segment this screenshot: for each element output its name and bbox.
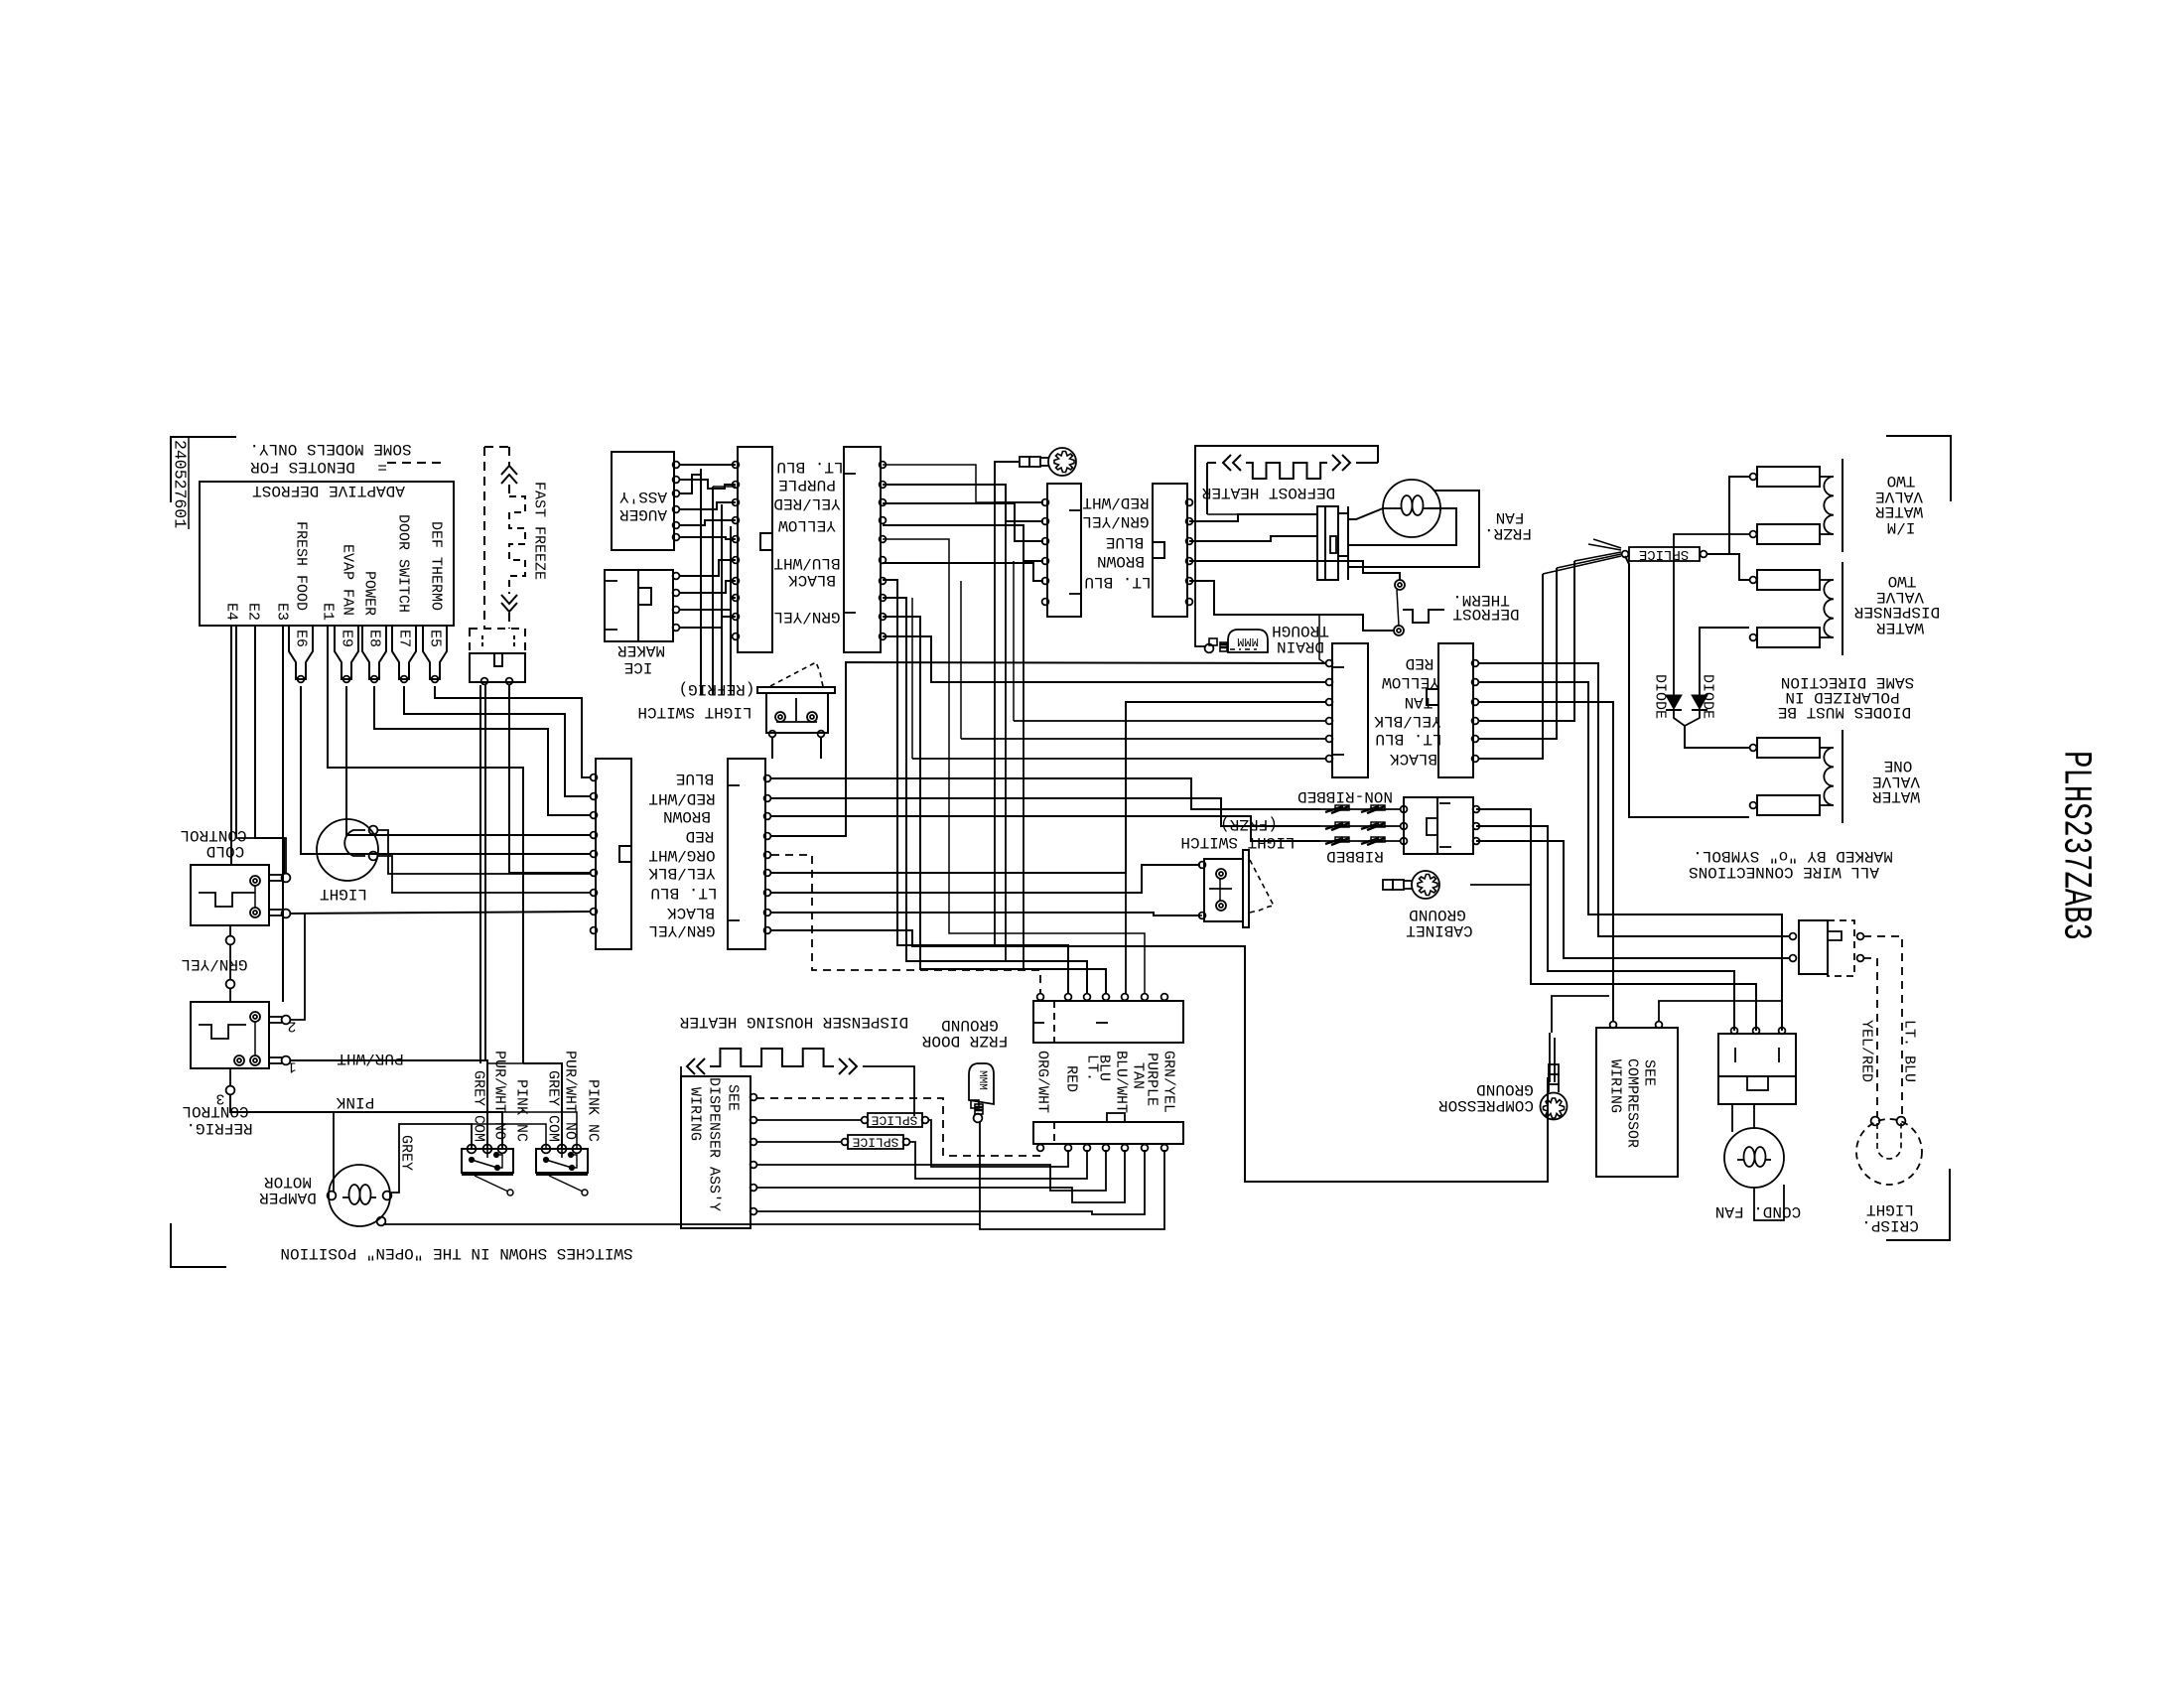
svg-text:(FRZR): (FRZR): [1220, 815, 1278, 833]
refrig control pin 3: [229, 1068, 231, 1086]
svg-text:RED/WHT: RED/WHT: [648, 789, 715, 807]
see dispenser wiring box: [681, 1076, 751, 1228]
trunk: drain pin3 to see compressor: [1478, 702, 1613, 1022]
svg-text:LT. BLU: LT. BLU: [776, 458, 843, 476]
svg-text:PINK NC: PINK NC: [585, 1079, 602, 1142]
spade terminal E5: [423, 626, 447, 679]
defrost thermostat terminal top: [1395, 580, 1405, 590]
svg-text:SPLICE: SPLICE: [1639, 546, 1689, 562]
svg-text:E1: E1: [320, 603, 337, 621]
svg-text:DIODE: DIODE: [1700, 674, 1716, 719]
svg-text:PUR/WHT NO: PUR/WHT NO: [491, 1051, 508, 1140]
adaptive defrost control board: [200, 482, 454, 626]
svg-text:GROUND: GROUND: [941, 1016, 999, 1034]
cold control wire right (grn/yel run): [290, 912, 591, 914]
svg-text:GRN/YEL: GRN/YEL: [773, 608, 840, 626]
pur/wht branch: [487, 1062, 523, 1064]
svg-text:GRN/YEL: GRN/YEL: [1082, 512, 1149, 530]
wire see-box to splice2: [756, 1141, 842, 1143]
wire ice maker to connector: [679, 560, 736, 576]
water valve solenoid: [1757, 738, 1820, 758]
svg-text:BLU/WHT: BLU/WHT: [1113, 1051, 1130, 1113]
wire E5 run: [435, 686, 591, 777]
page corner mark top-left: [171, 437, 236, 502]
svg-text:DOOR SWITCH: DOOR SWITCH: [395, 514, 412, 613]
svg-text:MARKED BY "o" SYMBOL.: MARKED BY "o" SYMBOL.: [1693, 847, 1893, 865]
wire: [679, 581, 736, 593]
wire E8 run: [374, 686, 591, 815]
wire auger to connector: [679, 464, 736, 466]
svg-text:ONE: ONE: [1884, 757, 1913, 774]
wire: [679, 502, 736, 509]
svg-text:E9: E9: [339, 630, 355, 647]
wire E9 run: [346, 686, 591, 835]
trunk: drain pin1 to relay upper: [1478, 663, 1790, 936]
splice 2: [848, 1135, 903, 1149]
svg-text:GREY COM: GREY COM: [471, 1070, 487, 1142]
heater right lead: [863, 1066, 914, 1116]
svg-text:SPLICE: SPLICE: [871, 1113, 917, 1128]
frzr door ground wire: [980, 1122, 1164, 1229]
svg-text:COND. FAN: COND. FAN: [1715, 1202, 1801, 1220]
svg-text:FRZR DOOR: FRZR DOOR: [921, 1032, 1008, 1050]
svg-text:TAN: TAN: [1405, 693, 1433, 711]
lead wires with splices: [1320, 808, 1401, 810]
svg-text:FRESH FOOD: FRESH FOOD: [293, 521, 310, 611]
dispenser connector upper: [1033, 1001, 1183, 1043]
water valve solenoid: [1757, 467, 1820, 487]
svg-text:YEL/RED: YEL/RED: [1858, 1020, 1875, 1082]
svg-text:DISPENSER HOUSING HEATER: DISPENSER HOUSING HEATER: [679, 1013, 908, 1031]
trunk wire: [883, 636, 1325, 682]
trunk: ribbed lead to cond fan 1: [1476, 826, 1734, 1031]
trunk wire: [883, 617, 1106, 994]
refrig control pin 2: [269, 1016, 282, 1018]
trunk: ribbed lead to relay lower: [1476, 841, 1790, 958]
svg-text:SWITCHES SHOWN IN THE "OPEN" P: SWITCHES SHOWN IN THE "OPEN" POSITION: [280, 1244, 632, 1262]
svg-text:TWO: TWO: [1888, 572, 1917, 590]
svg-text:BLACK: BLACK: [667, 904, 715, 921]
splice2 wire east: [910, 1142, 1087, 1179]
damper motor: [329, 1165, 390, 1226]
defrost heater loop: [1195, 446, 1378, 502]
page corner mark top-right: [1886, 436, 1951, 501]
damper door switch: [462, 1149, 513, 1173]
vertical harness wires: [700, 469, 702, 695]
wire RED east: [771, 662, 1325, 836]
damper motor left wire: [333, 1112, 335, 1192]
board E4 wires: [230, 626, 232, 865]
svg-text:LT. BLU: LT. BLU: [1375, 730, 1441, 748]
dispenser connector lower: [1033, 1122, 1183, 1144]
svg-text:MMM: MMM: [976, 1070, 988, 1090]
svg-text:SOME MODELS ONLY.: SOME MODELS ONLY.: [249, 440, 411, 458]
svg-text:ICE: ICE: [624, 658, 653, 676]
svg-text:LT. BLU: LT. BLU: [650, 884, 717, 902]
wire E1 run: [328, 626, 523, 1063]
svg-text:PUR/WHT NO: PUR/WHT NO: [562, 1051, 579, 1140]
ice maker box: [605, 570, 673, 641]
drain trough heater: [1228, 630, 1268, 652]
wire: [679, 520, 736, 525]
ground lug top: [1020, 448, 1076, 476]
splice fan-in wires: [1574, 552, 1621, 561]
cond fan connector box: [1718, 1034, 1796, 1076]
wire valve one return: [1625, 556, 1749, 817]
heater left lead: [680, 1066, 682, 1076]
wire splice to dispenser valve: [1716, 554, 1749, 580]
svg-text:RED/WHT: RED/WHT: [1082, 493, 1149, 511]
svg-text:E4: E4: [223, 603, 240, 621]
svg-text:BROWN: BROWN: [1097, 552, 1145, 570]
svg-text:RED: RED: [1063, 1065, 1080, 1092]
diode 2: [1692, 695, 1707, 709]
svg-text:DIODE: DIODE: [1652, 674, 1669, 719]
svg-text:LT. BLU: LT. BLU: [1901, 1020, 1918, 1082]
svg-text:LIGHT: LIGHT: [1866, 1200, 1914, 1218]
svg-text:DEFROST HEATER: DEFROST HEATER: [1201, 484, 1335, 501]
svg-text:SPLICE: SPLICE: [852, 1135, 898, 1150]
svg-text:BLACK: BLACK: [788, 571, 836, 589]
svg-text:POWER: POWER: [361, 571, 378, 616]
wire i/m valve pin2 to diode1: [1674, 534, 1749, 695]
svg-text:E5: E5: [427, 630, 444, 647]
page corner mark bottom-right: [1886, 1169, 1950, 1240]
cold control pins: [269, 874, 282, 876]
svg-text:MAKER: MAKER: [617, 641, 665, 659]
wire YEL/BLK east: [771, 702, 1325, 873]
svg-text:COMPRESSOR: COMPRESSOR: [1624, 1058, 1641, 1148]
wire to heater block: [1189, 514, 1317, 521]
svg-text:PURPLE: PURPLE: [1144, 1053, 1160, 1106]
svg-text:TWO: TWO: [1887, 472, 1916, 490]
svg-text:=: =: [377, 458, 387, 476]
compressor ground lug: [1541, 1064, 1568, 1120]
fast freeze connector dashed housing: [470, 629, 525, 653]
svg-text:DISPENSER: DISPENSER: [1853, 603, 1940, 621]
fast freeze connector body: [470, 653, 525, 682]
wire defrost therm to drain connector: [1319, 614, 1363, 616]
wire splice to i/m valve: [1707, 477, 1749, 554]
svg-text:FAST FREEZE: FAST FREEZE: [531, 482, 548, 580]
svg-text:COLD: COLD: [206, 842, 244, 860]
legend dashed sample: [387, 462, 442, 464]
svg-text:240527601: 240527601: [171, 440, 190, 528]
trunk: drain pin6 to splice: [1478, 574, 1543, 759]
light switch refrig: [757, 687, 835, 693]
wire yel/blk to drain: [1014, 720, 1325, 722]
wire LT.BLU east: [771, 865, 1200, 893]
svg-text:LT. BLU: LT. BLU: [1084, 573, 1151, 591]
part number underline: [188, 438, 190, 529]
svg-text:WATER: WATER: [1876, 619, 1924, 636]
yel/red dashed wire: [1863, 958, 1877, 1117]
svg-text:SEE: SEE: [725, 1084, 742, 1111]
svg-text:BLUE: BLUE: [676, 770, 714, 787]
svg-text:LIGHT: LIGHT: [320, 885, 367, 903]
svg-text:YELLOW: YELLOW: [1382, 673, 1439, 691]
svg-text:E2: E2: [245, 603, 262, 621]
wire: [679, 617, 736, 628]
svg-text:YELLOW: YELLOW: [778, 516, 836, 534]
svg-text:BLU: BLU: [1096, 1055, 1113, 1081]
svg-text:BLU/WHT: BLU/WHT: [773, 554, 840, 572]
wire: [1207, 513, 1317, 515]
defrost thermostat capillary: [1403, 610, 1444, 623]
splice 1: [868, 1113, 922, 1127]
overload relay dashed half: [1828, 920, 1854, 976]
switch frzr wires: [1171, 914, 1202, 916]
refrig control pin 1: [269, 1056, 282, 1058]
wire see-box to splice1: [756, 1119, 862, 1121]
svg-text:GREY: GREY: [398, 1135, 415, 1171]
svg-text:WIRING: WIRING: [687, 1087, 704, 1141]
see-box lower wires east: [756, 1150, 1106, 1191]
trunk: drain pin5 to splice: [1478, 568, 1557, 739]
diode wiring: [1700, 628, 1749, 695]
diode 1: [1666, 695, 1682, 709]
trunk wire: [883, 539, 1145, 994]
trunk wire tan: [1125, 873, 1127, 994]
harness connector left (top): [738, 447, 772, 652]
svg-text:RED: RED: [1406, 654, 1434, 672]
wire: [679, 480, 736, 489]
svg-text:TROUGH: TROUGH: [1272, 622, 1329, 639]
svg-text:AUGER: AUGER: [619, 505, 667, 523]
svg-text:ALL WIRE CONNECTIONS: ALL WIRE CONNECTIONS: [1689, 863, 1879, 881]
svg-text:YEL/BLK: YEL/BLK: [648, 864, 716, 882]
svg-text:E6: E6: [293, 630, 310, 647]
svg-text:DEF THERMO: DEF THERMO: [428, 521, 445, 611]
svg-text:I/M: I/M: [1887, 518, 1916, 536]
svg-text:MMM: MMM: [1237, 634, 1259, 648]
wire GRN/YEL east: [771, 930, 1548, 1182]
cold control wire up: [236, 838, 286, 874]
cond fan motor: [1724, 1128, 1784, 1188]
freezer fan motor: [1383, 480, 1440, 537]
defrost heater plug block: [1317, 506, 1338, 580]
drain connector right: [1438, 643, 1473, 777]
lead cord connector: [1404, 797, 1473, 854]
trunk: drain pin4 to splice: [1478, 561, 1574, 721]
defrost heater element: [1223, 455, 1231, 471]
svg-text:CONTROL: CONTROL: [180, 826, 246, 844]
svg-text:PUR/WHT: PUR/WHT: [337, 1050, 403, 1067]
wire: [679, 537, 736, 539]
defrost thermostat blade: [1397, 590, 1399, 626]
harness connector right (top): [844, 447, 881, 652]
crisp light dashed circle: [1856, 1119, 1922, 1185]
splice1 wire east: [929, 1120, 1068, 1167]
svg-text:GROUND: GROUND: [1409, 906, 1466, 923]
svg-text:YEL/RED: YEL/RED: [773, 494, 840, 512]
wire BROWN east: [771, 816, 1320, 841]
wire black to drain: [912, 758, 1325, 760]
svg-text:GROUND: GROUND: [1476, 1080, 1534, 1098]
trunk wire: [883, 598, 1087, 994]
wire ground to connector: [995, 462, 1043, 502]
wire from defrost thermostat: [1189, 581, 1394, 631]
drain connector left: [1332, 643, 1368, 777]
board E3 wire: [282, 626, 284, 1002]
svg-text:FAN: FAN: [1496, 508, 1525, 526]
harness wires down to 5-pin connector: [883, 485, 1043, 521]
spade terminal E7: [392, 626, 416, 679]
wire E7 run: [404, 686, 591, 796]
svg-text:E7: E7: [396, 630, 413, 647]
svg-text:WIRING: WIRING: [1607, 1059, 1624, 1113]
svg-text:ORG/WHT: ORG/WHT: [1034, 1051, 1051, 1113]
svg-text:REFRIG.: REFRIG.: [186, 1119, 252, 1137]
svg-text:SEE: SEE: [1641, 1059, 1658, 1086]
refrig control box: [191, 1002, 269, 1068]
cabinet ground wire: [1470, 884, 1531, 886]
compressor ground wire: [1549, 1033, 1551, 1082]
svg-text:ASS'Y: ASS'Y: [619, 488, 667, 505]
trunk verticals from 5-pin feeds: [994, 502, 996, 945]
svg-text:FRZR.: FRZR.: [1484, 524, 1532, 542]
wire fast freeze left: [479, 685, 481, 1063]
water valve solenoid: [1757, 570, 1820, 590]
wire fast freeze right: [509, 685, 591, 873]
wire: [679, 598, 736, 610]
svg-text:WATER: WATER: [1875, 502, 1923, 520]
svg-text:BROWN: BROWN: [663, 807, 711, 825]
cold control box: [191, 865, 269, 925]
svg-text:PURPLE: PURPLE: [778, 476, 836, 493]
trunk: ribbed lead to cond fan 2: [1476, 809, 1756, 1031]
pink wire: [230, 1094, 502, 1149]
svg-text:RED: RED: [686, 827, 715, 845]
connector right (5-pin pair): [1153, 484, 1187, 617]
svg-text:E3: E3: [274, 603, 291, 621]
splice top right: [1629, 547, 1700, 561]
cabinet ground lug: [1383, 871, 1439, 899]
svg-text:YEL/BLK: YEL/BLK: [1374, 712, 1441, 730]
center connector left (box A): [596, 759, 631, 949]
trunk wire: [883, 580, 1068, 994]
svg-text:PINK NC: PINK NC: [513, 1079, 530, 1142]
light switch frzr: [1243, 850, 1249, 927]
spade terminal E9: [335, 626, 358, 679]
wire lt.blu to drain: [961, 738, 1325, 740]
svg-text:DRAIN: DRAIN: [1277, 637, 1324, 655]
fast freeze switch dashed outline: [483, 447, 485, 629]
center connector right (box B): [728, 759, 765, 949]
spade terminal E8: [362, 626, 386, 679]
wire refrig pin2 up: [290, 914, 305, 1020]
trunk: drain pin2 to cond fan 3: [1478, 682, 1782, 1031]
wire: [679, 469, 701, 493]
svg-text:DAMPER: DAMPER: [259, 1189, 317, 1206]
svg-text:EVAP FAN: EVAP FAN: [340, 544, 356, 616]
svg-text:GRN/YEL: GRN/YEL: [648, 921, 715, 939]
pur/wht wire: [290, 1060, 487, 1149]
cond fan wires: [1731, 1104, 1733, 1132]
connector left (5-pin pair): [1047, 484, 1081, 617]
svg-text:ADAPTIVE DEFROST: ADAPTIVE DEFROST: [252, 482, 405, 499]
svg-text:(REFRIG): (REFRIG): [679, 680, 755, 698]
light bulb wires: [377, 830, 591, 874]
damper motor bottom wire: [383, 1223, 980, 1225]
lt.blu dashed wire: [1863, 936, 1902, 1117]
grey wire: [391, 1124, 472, 1193]
svg-text:MOTOR: MOTOR: [264, 1173, 312, 1191]
svg-text:RIBBED: RIBBED: [1326, 847, 1384, 865]
svg-text:GRN/YEL: GRN/YEL: [181, 955, 247, 973]
see compressor wiring box: [1596, 1028, 1678, 1177]
svg-text:COMPRESSOR: COMPRESSOR: [1438, 1096, 1534, 1114]
frzr door ground symbol: [969, 1063, 994, 1104]
switch pointer 1: [475, 1176, 508, 1192]
switch pointer 2: [549, 1176, 583, 1192]
svg-text:DENOTES FOR: DENOTES FOR: [250, 458, 355, 476]
svg-text:PLHS237ZAB3: PLHS237ZAB3: [2053, 751, 2098, 940]
wire BLUE east: [771, 778, 1320, 809]
wire to drain trough: [1195, 502, 1205, 646]
light bulb refrig: [317, 819, 378, 881]
svg-text:DIODES MUST BE: DIODES MUST BE: [1778, 703, 1911, 721]
svg-text:DEFROST: DEFROST: [1452, 605, 1519, 623]
spade terminal E6: [289, 626, 313, 679]
svg-text:PINK: PINK: [336, 1093, 374, 1111]
dispenser housing heater element: [687, 1058, 695, 1074]
wire: [1189, 536, 1317, 541]
wire: [883, 465, 995, 502]
board E2 wire: [255, 626, 284, 873]
switch wires down: [771, 737, 773, 759]
svg-text:CRISP.: CRISP.: [1861, 1216, 1919, 1234]
wire see-box pin1 dashed: [756, 1098, 1040, 1156]
svg-text:LIGHT SWITCH: LIGHT SWITCH: [637, 703, 751, 721]
damper door switch: [536, 1149, 588, 1173]
svg-text:GREY COM: GREY COM: [545, 1070, 562, 1142]
wire to defrost thermostat: [1189, 561, 1400, 580]
svg-text:NON-RIBBED: NON-RIBBED: [1297, 787, 1393, 805]
svg-text:DISPENSER ASS'Y: DISPENSER ASS'Y: [706, 1077, 723, 1211]
svg-text:BLUE: BLUE: [1106, 533, 1144, 551]
wire E6 run: [301, 686, 591, 854]
see compressor pin2 feed: [1659, 1001, 1782, 1022]
wire RED/WHT east: [771, 798, 1320, 826]
svg-text:ORG/WHT: ORG/WHT: [648, 846, 715, 864]
page corner mark bottom-left: [171, 1223, 226, 1267]
overload relay solid half: [1799, 920, 1828, 974]
drain trough plug: [1209, 638, 1217, 645]
svg-text:GRN/YEL: GRN/YEL: [1160, 1051, 1177, 1113]
svg-text:LIGHT SWITCH: LIGHT SWITCH: [1180, 833, 1295, 851]
svg-text:BLACK: BLACK: [1390, 750, 1437, 768]
svg-text:E8: E8: [366, 630, 383, 647]
wire BLACK east: [771, 913, 1200, 915]
svg-text:CABINET: CABINET: [1406, 921, 1472, 939]
auger assembly box: [612, 452, 674, 550]
wire ORG/WHT dashed east: [771, 855, 1040, 994]
defrost thermostat terminal bottom: [1394, 626, 1404, 635]
svg-text:WATER: WATER: [1872, 787, 1920, 805]
fan wiring loops: [1383, 507, 1396, 509]
